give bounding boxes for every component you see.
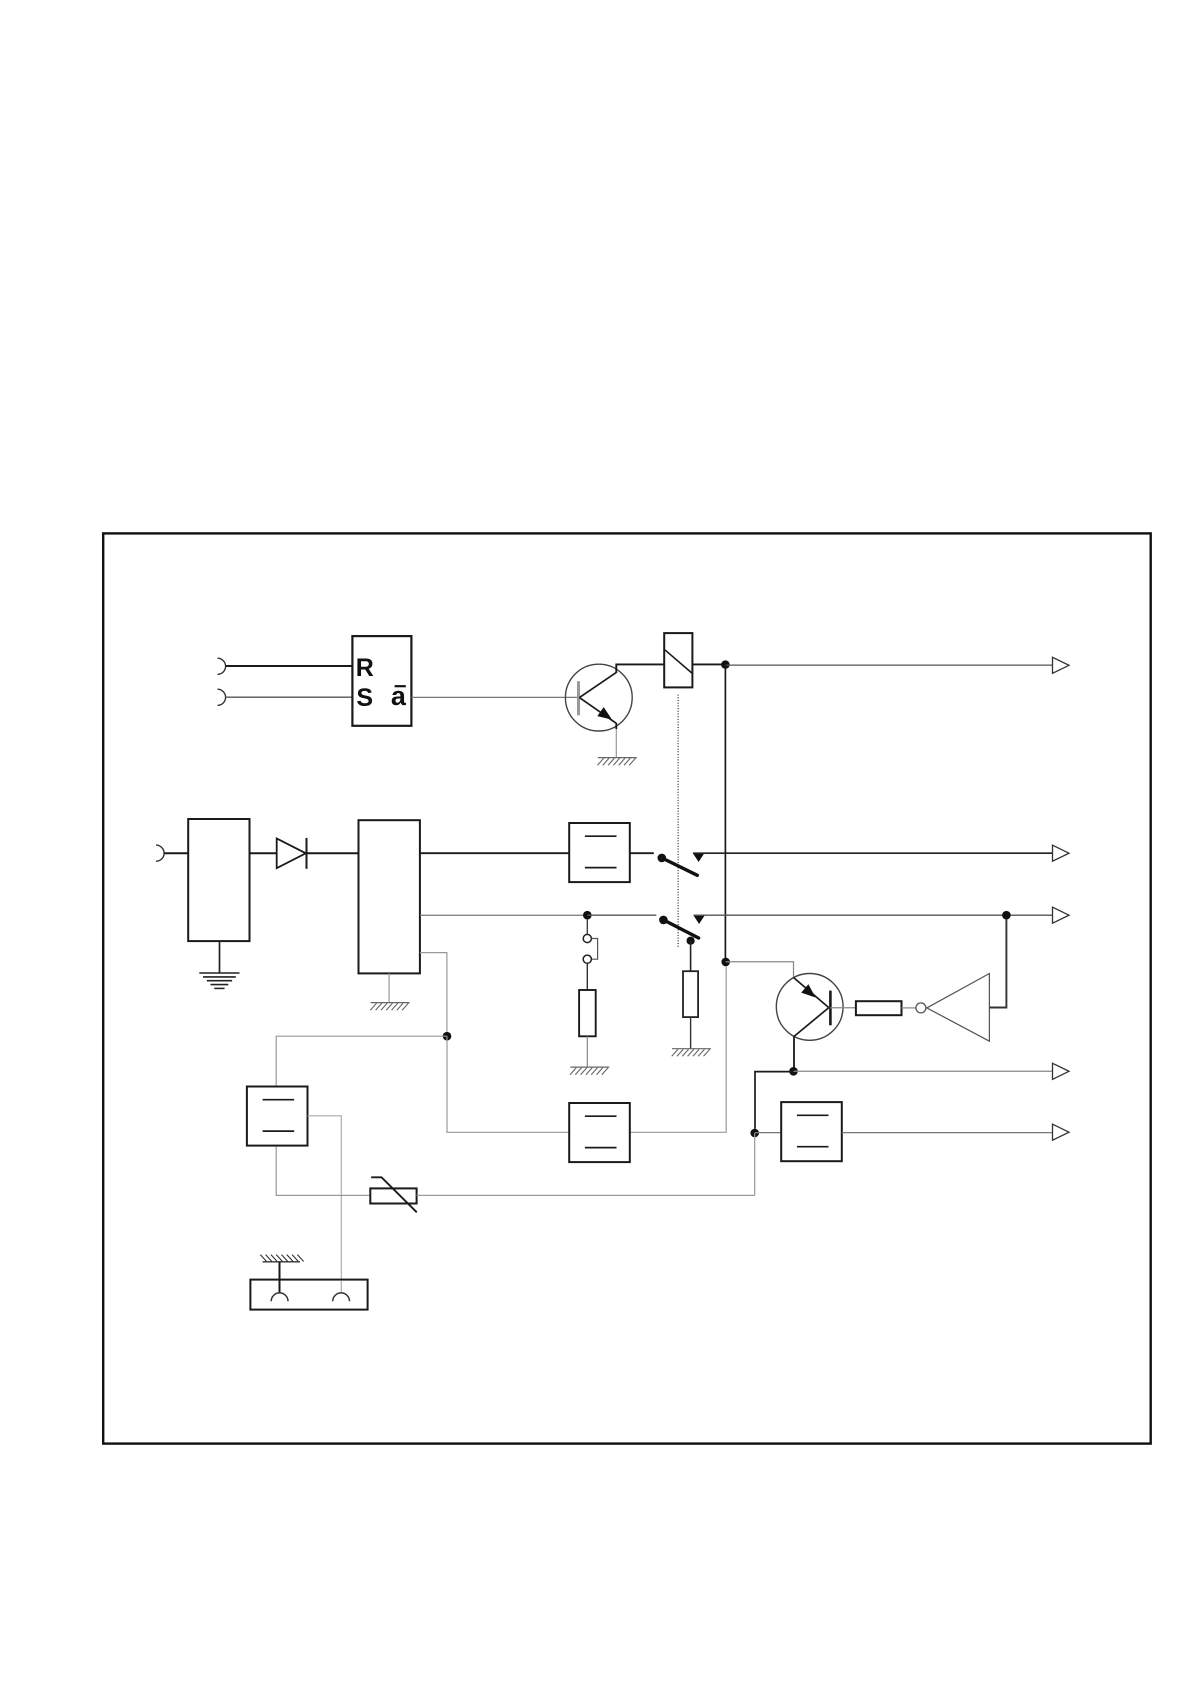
earth ground A1 (199, 973, 239, 988)
node C junction (789, 1067, 798, 1076)
node inverter tap (1002, 911, 1011, 920)
switch S1 pivot node (658, 854, 667, 863)
relay coil K1 (664, 633, 692, 687)
node E junction (443, 1032, 452, 1041)
wire relay junction down to node B (724, 665, 726, 962)
ground R2 (672, 1049, 711, 1057)
wire Q2 collector down to node C (793, 1036, 795, 1071)
inverter N1 (927, 974, 990, 1042)
wire node E down to box A4 (447, 1036, 569, 1132)
control box A2 (359, 820, 420, 973)
link contact lower circle (583, 955, 591, 963)
node relay output junction (721, 660, 730, 669)
ground A2 (370, 1003, 409, 1011)
wire node D down to varistor row (754, 1133, 756, 1195)
ground Q1 emitter (598, 758, 637, 766)
wire tap down to link (586, 920, 588, 935)
mechanical link dotted line (677, 695, 679, 947)
output port 2 (1053, 845, 1070, 861)
wire node B to Q2 emitter (726, 962, 794, 978)
transistor Q2 (776, 974, 843, 1041)
diode D1 (277, 838, 307, 869)
output port 4 (1053, 1063, 1070, 1079)
frame border (103, 533, 1151, 1443)
chassis ground above terminal block (260, 1255, 303, 1262)
svg-text:R: R (356, 654, 374, 682)
wire Q1 collector up to relay row (616, 664, 664, 673)
wire node E to box A3 (276, 1036, 447, 1086)
output port 3 (1053, 907, 1070, 923)
wire R1 to ground (586, 1036, 588, 1067)
wire S2 to output row (693, 914, 1052, 916)
wire relay to junction (692, 663, 725, 665)
power-supply box A1 (188, 819, 249, 941)
wire diode to box A2 (307, 852, 359, 854)
RS flip-flop U1 (352, 636, 411, 726)
inverter N1 bubble (916, 1003, 926, 1013)
wire Q1 emitter to ground (615, 729, 617, 757)
output port 5 (1053, 1124, 1070, 1140)
wire R input (226, 665, 353, 667)
switch S2 contact arrowhead (693, 915, 704, 924)
wire varistor to node D (417, 1194, 755, 1196)
wire Q2 base to resistor R3 (830, 1007, 856, 1009)
varistor RV1 (370, 1177, 417, 1212)
resistor R2 (683, 971, 698, 1017)
wire A2 third output to node E (420, 953, 447, 1037)
ground R1 (570, 1067, 609, 1075)
input connector J1b (S) (218, 689, 226, 705)
socket contact b (333, 1293, 350, 1301)
wire J2 to PSU box (164, 852, 188, 854)
input connector J2 (156, 845, 164, 861)
node B junction (721, 958, 730, 967)
box A5 (781, 1102, 842, 1161)
box A4 (569, 1103, 630, 1162)
box A3 (247, 1087, 308, 1146)
wire junction to output port 1 (725, 664, 1052, 666)
wire A5 to output port 5 (842, 1132, 1053, 1134)
link contact upper circle (583, 934, 591, 942)
wire R2 to ground (690, 1017, 692, 1048)
wire R3 to inverter bubble (902, 1007, 916, 1009)
wire A2 second output (420, 914, 587, 916)
input connector J1a (R) (218, 658, 226, 674)
node link tap (583, 911, 592, 920)
converter box U2 (569, 823, 630, 882)
wire A1 to diode (250, 852, 277, 854)
node S2 lower contact (687, 937, 695, 945)
wire inverter input from row 3 (989, 919, 1006, 1008)
wire a-bar output to Q1 base (411, 696, 578, 698)
socket contact a (271, 1293, 288, 1301)
terminal block X1 (250, 1280, 367, 1310)
wire A3 right pin to terminal socket b (308, 1116, 342, 1293)
wire S1 to output port 2 (693, 852, 1053, 854)
transistor Q1 (565, 664, 632, 731)
wire into terminal socket b (340, 1281, 342, 1293)
wire node B down to box A4 (630, 966, 726, 1132)
wire node C to output port 4 (794, 1070, 1053, 1072)
wire link to resistor R1 (586, 963, 588, 990)
wire node C to node D (755, 1072, 794, 1129)
switch S1 contact arrowhead (693, 853, 704, 862)
wire tap to switch S2 (587, 914, 656, 916)
svg-text:S: S (356, 684, 373, 712)
resistor R3 (856, 1001, 902, 1015)
wire S input (226, 696, 353, 698)
resistor R1 (579, 990, 596, 1036)
wire A2 to chassis ground (388, 973, 390, 1002)
switch S2 blade (663, 920, 698, 938)
wire converter to switch S1 (630, 852, 654, 854)
wire node D to box A5 (755, 1132, 782, 1134)
wire A3 bottom to varistor (276, 1147, 370, 1196)
link bracket (592, 939, 598, 960)
wire A2 to converter (420, 852, 569, 854)
wire A1 to earth ground (219, 941, 221, 973)
node D junction (750, 1129, 759, 1138)
wire S2 contact to resistor R2 (690, 941, 692, 972)
switch S2 pivot node (659, 916, 668, 925)
switch S1 blade (662, 858, 698, 875)
wire chassis ground to terminal socket a (279, 1262, 281, 1293)
output port 1 (1053, 657, 1070, 673)
